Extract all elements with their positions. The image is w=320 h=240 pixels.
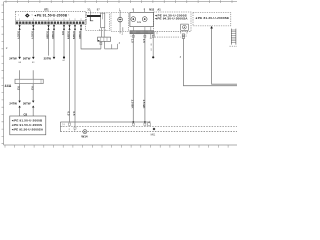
- wire pin3: [46, 24, 50, 55]
- motor top pins: [132, 7, 145, 13]
- ground point W14: [81, 130, 88, 139]
- solenoid Y1 symbol: [118, 14, 123, 27]
- wire pin6 long to ground bus: [67, 24, 71, 122]
- inline connector X3: [98, 37, 111, 41]
- dashed rail 1: [60, 125, 237, 127]
- motor connector bar: [130, 31, 154, 34]
- motor ground wire 1: [130, 34, 134, 126]
- relay K1 contact: [87, 10, 101, 20]
- wire 26TW middle segment: [23, 70, 34, 116]
- box A left pins: [155, 31, 157, 35]
- rail terminator Z1: [60, 122, 64, 132]
- wire pin4 25TW: [44, 24, 56, 60]
- connector housing below clock: [181, 31, 188, 38]
- svg-text:W14: W14: [81, 134, 88, 138]
- solenoid Y1 dashed box: [111, 12, 129, 31]
- motor ground wire 2: [142, 34, 146, 126]
- svg-text:◄PE 91.50-U-2000B: ◄PE 91.50-U-2000B: [34, 13, 68, 17]
- solenoid Y1 top pin: [119, 7, 121, 14]
- svg-text:24TW: 24TW: [9, 56, 17, 60]
- rail marker diamond: [151, 128, 156, 137]
- motor symbol 2: [142, 17, 147, 22]
- svg-text:0.5GY: 0.5GY: [17, 31, 21, 39]
- svg-text:0.5: 0.5: [61, 31, 65, 35]
- svg-text:30: 30: [87, 7, 90, 11]
- wire pin6 termination: [69, 123, 71, 131]
- wire up-arrow into box B: [210, 26, 237, 84]
- solenoid Y1 bottom pin: [119, 27, 124, 45]
- svg-text:0.5BK: 0.5BK: [51, 31, 55, 40]
- svg-text:M61: M61: [151, 134, 156, 137]
- relay K1 dashed box: [86, 13, 110, 31]
- wire from clock down: [180, 38, 237, 85]
- svg-text:A1: A1: [157, 7, 161, 11]
- svg-text:1.5 BK: 1.5 BK: [130, 100, 134, 110]
- B71 diamond symbol: [25, 13, 30, 17]
- box A clock symbol: [181, 24, 189, 30]
- dashed rail 2: [60, 131, 237, 133]
- border frame bottom ruler: [4, 145, 237, 148]
- horizontal link wire: [81, 48, 118, 50]
- svg-text:0.5GY: 0.5GY: [30, 31, 34, 39]
- svg-text:0.5BN: 0.5BN: [67, 31, 71, 39]
- svg-text:12a: 12a: [137, 21, 142, 24]
- relay K1 coil: [101, 13, 105, 28]
- svg-text:◄PE 91.50-U-2000SA: ◄PE 91.50-U-2000SA: [11, 127, 44, 131]
- svg-text:0.5: 0.5: [67, 112, 71, 116]
- svg-text:44A: 44A: [5, 84, 12, 88]
- motor symbol 1: [131, 17, 136, 22]
- right edge connector ladder: [231, 29, 236, 45]
- wire 24TW middle segment: [9, 70, 20, 116]
- svg-text:26TW: 26TW: [23, 56, 31, 60]
- connector B71 pin strip: [15, 18, 86, 24]
- svg-text:25TW: 25TW: [44, 56, 52, 60]
- svg-text:◄PE 94.30-U-2000SA: ◄PE 94.30-U-2000SA: [154, 17, 188, 21]
- svg-text:1.5 BK: 1.5 BK: [142, 100, 146, 110]
- svg-text:87: 87: [97, 7, 100, 11]
- X3 pins to horizontal wire: [100, 41, 118, 49]
- svg-text:1.5: 1.5: [130, 39, 134, 43]
- wire pin2 26TW: [23, 24, 35, 64]
- svg-text:24TW: 24TW: [9, 102, 17, 106]
- svg-text:0.5: 0.5: [17, 86, 21, 90]
- relay K1 pins down: [99, 28, 107, 37]
- motor test point wire: [151, 34, 155, 59]
- svg-text:0.5BK: 0.5BK: [46, 31, 50, 40]
- motor pin stub: [150, 34, 152, 38]
- component box C8: [10, 116, 46, 135]
- wire pin8 to connector jog: [78, 24, 101, 49]
- B71 pin numbers: [18, 15, 70, 17]
- svg-text:0.5BK: 0.5BK: [78, 31, 82, 40]
- ground bus 31: [60, 121, 150, 126]
- connector B71 dashed outline: [15, 12, 86, 25]
- right edge connector tail: [230, 45, 238, 47]
- svg-text:◄PE 81.20-U-2000SE: ◄PE 81.20-U-2000SE: [195, 16, 230, 20]
- border frame top ruler: [4, 0, 237, 3]
- svg-text:0.5: 0.5: [72, 112, 76, 116]
- svg-text:◄PE 91.50-U-2000B: ◄PE 91.50-U-2000B: [11, 119, 43, 123]
- connector X44: [5, 79, 44, 88]
- motor box M: [130, 12, 154, 26]
- svg-text:1.5: 1.5: [142, 39, 146, 43]
- svg-text:M13: M13: [149, 8, 154, 11]
- border frame left ruler: [2, 2, 4, 145]
- svg-text:0.5BN: 0.5BN: [72, 31, 76, 39]
- wire pin7 termination: [74, 127, 76, 132]
- wire pin1 24TW: [9, 24, 22, 64]
- motor bottom stubs: [133, 27, 151, 31]
- wire pin7 long to rail: [72, 24, 76, 126]
- svg-text:26TW: 26TW: [23, 102, 31, 106]
- control unit box B dashed: [193, 13, 231, 26]
- wire pin5 stub 44: [61, 24, 65, 62]
- control unit box A dashed: [153, 12, 191, 31]
- svg-text:◄PE 91.50-U-2000S: ◄PE 91.50-U-2000S: [11, 123, 42, 127]
- svg-text:871: 871: [44, 8, 49, 12]
- dashed link wire: [155, 36, 181, 38]
- svg-text:0.5: 0.5: [30, 86, 34, 90]
